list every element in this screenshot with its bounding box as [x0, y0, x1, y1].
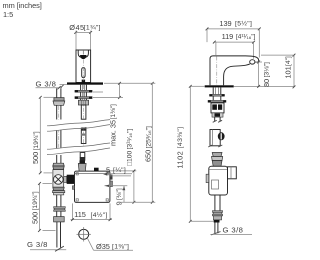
svg-text:650: 650	[144, 150, 153, 162]
top dark bump	[94, 168, 99, 171]
svg-text:Ø45: Ø45	[69, 23, 84, 32]
valve side view	[208, 130, 224, 148]
right connector	[110, 175, 113, 180]
svg-text:500: 500	[30, 212, 39, 224]
svg-text:[3¹⁵⁄₁₆"]: [3¹⁵⁄₁₆"]	[127, 129, 134, 150]
svg-text:[¼"]: [¼"]	[113, 167, 126, 174]
dim max 35	[93, 82, 123, 146]
svg-text:[4¹¹⁄₁₆"]: [4¹¹⁄₁₆"]	[236, 34, 256, 41]
svg-text:[1¾"]: [1¾"]	[84, 25, 101, 32]
svg-text:max. 35: max. 35	[108, 120, 117, 146]
break band 1	[47, 120, 110, 132]
svg-text:[1⅜"]: [1⅜"]	[110, 104, 117, 120]
bottom stack	[212, 211, 222, 213]
svg-text:[1⅜"]: [1⅜"]	[112, 244, 129, 251]
svg-text:□100: □100	[127, 150, 134, 166]
svg-text:mm [inches]: mm [inches]	[3, 1, 42, 10]
svg-text:[43⅜"]: [43⅜"]	[177, 126, 184, 148]
svg-text:115: 115	[74, 210, 86, 219]
dim 115 bottom of box	[71, 203, 113, 221]
dim 139	[206, 19, 261, 58]
corner screws	[76, 173, 78, 175]
deck extension line	[190, 85, 204, 87]
supply hose upper left	[53, 88, 65, 119]
outlet pipe below	[214, 195, 216, 211]
dim 650	[104, 82, 155, 204]
svg-text:Ø35: Ø35	[96, 242, 110, 251]
deck plate right view	[205, 85, 234, 87]
angle valve left view	[53, 163, 75, 195]
connector block	[211, 103, 224, 113]
aerator dark	[80, 55, 87, 59]
washer 1	[75, 90, 92, 92]
svg-text:[19¾"]: [19¾"]	[32, 191, 39, 210]
G 3/8 label bottom left	[27, 240, 66, 251]
svg-text:[25⁹⁄₁₆"]: [25⁹⁄₁₆"]	[145, 126, 152, 149]
break band 2	[47, 143, 110, 155]
dim box100	[127, 129, 136, 204]
centerline	[82, 60, 84, 83]
valve circle	[54, 175, 64, 185]
box body	[209, 166, 228, 195]
mounting nut	[78, 100, 88, 105]
svg-text:5: 5	[106, 165, 110, 174]
faucet body front view	[76, 50, 91, 83]
top inlet fitting	[78, 164, 86, 172]
sensor window	[82, 68, 85, 78]
O35 hole circle	[77, 227, 134, 251]
top nut	[53, 163, 64, 166]
svg-text:139: 139	[219, 19, 231, 28]
svg-text:101: 101	[283, 66, 292, 78]
dim 500 lower left	[30, 182, 55, 232]
dim 1102	[176, 85, 214, 223]
sensor base dark	[82, 80, 85, 83]
under-deck mounting stack left view	[75, 85, 92, 120]
dimension O45 top	[69, 23, 100, 50]
svg-text:80: 80	[262, 79, 271, 87]
hose lower segments after break 2	[57, 153, 86, 164]
threaded rod	[81, 105, 86, 119]
G 3/8 label top left	[36, 80, 63, 90]
outlet ring	[250, 60, 255, 64]
svg-text:[4½"]: [4½"]	[91, 211, 108, 219]
svg-text:[4"]: [4"]	[285, 56, 292, 66]
valve body	[53, 170, 64, 188]
svg-text:119: 119	[222, 32, 234, 41]
spout outlet U front	[78, 50, 88, 58]
svg-text:500: 500	[31, 152, 40, 164]
under-deck right view	[208, 87, 226, 122]
tail	[56, 222, 58, 248]
svg-text:1102: 1102	[176, 151, 185, 169]
dim 119	[213, 32, 256, 59]
svg-text:G 3/8: G 3/8	[27, 240, 48, 249]
lower hose below valve	[54, 195, 66, 248]
left tab	[206, 174, 209, 182]
right connector	[228, 167, 237, 179]
dim 9 right of box	[105, 185, 128, 206]
svg-text:1:5: 1:5	[3, 10, 13, 19]
washer 2	[75, 97, 92, 99]
left lower tab	[72, 186, 74, 190]
dim 80	[256, 61, 271, 88]
G 3/8 label right view	[210, 225, 252, 234]
bottom nut	[53, 187, 64, 190]
dim 5 top right of box	[103, 165, 136, 176]
inner hint	[212, 180, 219, 189]
washer stack	[54, 207, 66, 209]
end nut	[54, 217, 65, 222]
svg-text:[3⅛"]: [3⅛"]	[263, 62, 270, 78]
hose middle segments between breaks	[57, 124, 86, 150]
top fittings	[212, 153, 222, 157]
control box front view	[72, 160, 112, 202]
svg-text:[5½"]: [5½"]	[235, 20, 252, 28]
stem to box	[64, 176, 67, 182]
faucet side view	[210, 56, 259, 85]
svg-text:[19¾"]: [19¾"]	[33, 131, 40, 150]
svg-text:G 3/8: G 3/8	[36, 80, 57, 89]
dim 101	[261, 54, 295, 89]
dim 500 upper left	[31, 96, 54, 174]
svg-text:[⅜"]: [⅜"]	[116, 188, 123, 200]
deck plate left view	[67, 82, 103, 84]
control box side view	[206, 153, 236, 235]
svg-text:G 3/8: G 3/8	[223, 225, 244, 234]
